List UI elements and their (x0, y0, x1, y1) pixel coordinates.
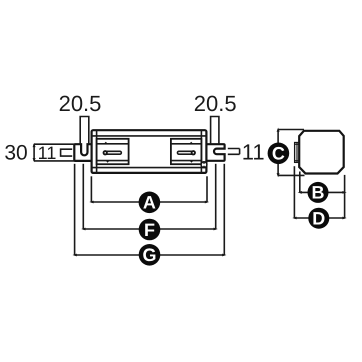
left block inner line top (97, 143, 129, 145)
right block inner line top (171, 143, 202, 145)
left terminal block (97, 139, 129, 164)
inner flange line bottom (92, 167, 207, 169)
dimension B extension lines (299, 172, 301, 193)
dimension 20.5 right bracket (211, 117, 219, 145)
screw head on right strip (201, 162, 207, 168)
left block pip top (104, 142, 108, 144)
svg-text:D: D (312, 209, 325, 229)
dimension 11 right extension lines (228, 149, 240, 155)
dimension 30 extension top (34, 143, 74, 145)
dimension G extension lines (74, 164, 76, 255)
svg-text:B: B (312, 183, 325, 203)
right block pip bottom (190, 161, 194, 163)
side view mounting rail tab (295, 143, 300, 163)
svg-text:F: F (144, 220, 155, 240)
dimension B line (300, 191, 345, 193)
dimension C line (277, 130, 279, 176)
right block inner line bottom (171, 160, 202, 162)
dimension C extension bottom (278, 174, 304, 176)
dimension D extension line left (293, 166, 295, 218)
dimension 30 extension bottom (34, 160, 74, 162)
left block pip bottom (106, 161, 110, 163)
svg-text:20.5: 20.5 (194, 91, 237, 116)
dimension D circle (308, 208, 329, 229)
svg-text:11: 11 (242, 139, 265, 164)
inner flange line top (92, 135, 207, 137)
right mounting tab with open slot (206, 144, 224, 161)
svg-text:A: A (143, 193, 156, 213)
right block pip top (189, 142, 193, 144)
right keyhole slot circle (191, 150, 196, 155)
side view octagon body (299, 131, 344, 174)
body outline (main front view) (92, 130, 207, 173)
dimension F circle (139, 219, 161, 241)
left keyhole slot circle (103, 150, 108, 155)
dimension A extension lines (90, 176, 92, 202)
svg-text:G: G (142, 245, 156, 265)
dimension 30 vertical line (33, 144, 35, 161)
dimension F line (83, 228, 215, 230)
dimension A circle (139, 192, 161, 214)
svg-text:C: C (272, 144, 285, 164)
dimension B circle (308, 182, 329, 203)
dimension D line (294, 217, 344, 219)
svg-text:11: 11 (38, 143, 57, 163)
left end strip line (96, 130, 98, 173)
dimension C extension top (278, 129, 304, 131)
left block inner line bottom (97, 160, 129, 162)
svg-text:20.5: 20.5 (59, 91, 102, 116)
svg-text:30: 30 (4, 141, 27, 164)
dimension G line (75, 254, 225, 256)
dimension G circle (139, 244, 161, 266)
dimension 11 left bracket (61, 149, 73, 156)
dimension F extension lines (82, 164, 84, 229)
dimension A line (91, 201, 207, 203)
right end strip line (200, 130, 202, 173)
right terminal block (171, 139, 202, 164)
right keyhole slot bar (177, 151, 193, 154)
left mounting tab with U slot (74, 144, 91, 161)
left keyhole slot bar (105, 151, 121, 154)
dimension C circle (268, 143, 290, 165)
dimension 20.5 left bracket (80, 117, 89, 145)
